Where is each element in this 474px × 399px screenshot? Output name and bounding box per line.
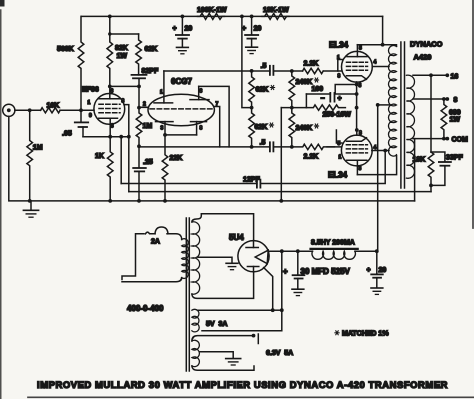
resistor 62K* (upper) <box>249 71 275 108</box>
svg-text:.5: .5 <box>261 63 267 70</box>
wire NFB drop from 16 tap <box>430 75 432 152</box>
wire splitter supply drop <box>242 16 252 107</box>
node rail-cap1 junction <box>181 15 185 19</box>
svg-text:−: − <box>321 96 325 103</box>
svg-text:8: 8 <box>454 97 458 104</box>
node cathode-screen-NFB junction <box>127 135 131 139</box>
wire EL34 bottom g2 to UL tap <box>372 150 389 152</box>
svg-text:1: 1 <box>339 155 342 161</box>
wire cathode tie 6CG7 <box>165 134 197 136</box>
resistor 1M (splitter) <box>136 108 152 147</box>
svg-text:8: 8 <box>122 99 125 105</box>
wire 6CG7 right grid drop <box>214 107 219 147</box>
svg-text:82K: 82K <box>115 45 128 52</box>
capacitor 100 MFD bias <box>306 86 356 108</box>
node lower g2 lineA junction <box>383 149 387 153</box>
node 16-NFB junction <box>429 73 433 77</box>
resistor 62K (EF86) <box>136 34 158 75</box>
resistor 240K* (lower) <box>289 108 319 147</box>
node 240K mid junction <box>290 106 294 110</box>
wire EL34 bottom grid entry <box>327 146 342 148</box>
wire bottom .5 to 2.2K <box>273 146 291 148</box>
wire screen-NFB drop <box>128 137 130 192</box>
resistor 1K <box>95 137 113 201</box>
capacitor 33PF <box>431 152 463 185</box>
wire filament jumper <box>273 309 282 311</box>
svg-text:3: 3 <box>359 83 362 89</box>
svg-text:EL34: EL34 <box>328 171 348 180</box>
wire bias vertical (cathodes) <box>356 85 358 131</box>
svg-text:62K: 62K <box>256 87 269 94</box>
wire 6CG7 left plate line to top .5 <box>164 70 270 72</box>
node rail-splitter-feed junction <box>240 15 244 19</box>
wire 6CG7 grid left entry <box>140 106 148 108</box>
transformer OPT core <box>401 42 405 188</box>
svg-text:62K: 62K <box>145 46 158 53</box>
svg-text:1: 1 <box>88 100 91 106</box>
wire 6.3V top lead with stub <box>192 334 258 344</box>
scan edge left <box>0 10 2 399</box>
wire line A left (cathode to 12PF) <box>121 183 257 185</box>
svg-text:IMPROVED MULLARD 30 WATT AMPLI: IMPROVED MULLARD 30 WATT AMPLIFIER USING… <box>37 379 448 390</box>
capacitor +120 output with ground <box>367 251 387 294</box>
wire input line <box>15 109 41 111</box>
svg-text:20: 20 <box>254 26 262 33</box>
resistor 18K-1W <box>262 7 289 19</box>
svg-text:5U4: 5U4 <box>229 233 244 242</box>
svg-text:2.2K: 2.2K <box>304 61 319 68</box>
capacitor .5 (upper) <box>261 63 274 75</box>
node 240K upper junction <box>290 69 294 73</box>
node 62K mid junction <box>250 106 254 110</box>
resistor 2.2K (upper) <box>303 61 324 74</box>
transformer OPT secondary winding <box>406 75 414 178</box>
ground (main rail) <box>23 201 38 217</box>
svg-text:.5: .5 <box>260 140 266 147</box>
svg-text:680: 680 <box>449 110 461 117</box>
resistor 560K <box>57 16 84 110</box>
node OPT top junction <box>381 43 385 47</box>
svg-text:6.3V 5A: 6.3V 5A <box>266 350 293 357</box>
resistor 10K <box>41 103 60 113</box>
svg-text:8: 8 <box>338 74 341 80</box>
node bias-gnd rail junction <box>279 199 283 203</box>
scan edge bottom <box>28 396 474 398</box>
scan edge right <box>472 0 474 228</box>
svg-text:A420: A420 <box>414 53 432 62</box>
svg-text:62K: 62K <box>255 124 268 131</box>
node B+ pickup junction <box>280 308 284 312</box>
wire B+ to CT <box>377 105 379 251</box>
wire EF86 cathode line <box>83 136 129 138</box>
tube 5U4 rectifier <box>229 233 269 272</box>
node .25-ground junction <box>137 199 141 203</box>
svg-text:5V 3A: 5V 3A <box>206 321 227 328</box>
label DYNACO A420 <box>410 40 443 62</box>
wire 62K branch <box>110 33 139 35</box>
wire B+ pickup drop <box>202 251 282 331</box>
capacitor +120 (right) with ground <box>242 16 261 53</box>
terminal COM <box>445 137 468 144</box>
svg-text:560K: 560K <box>57 46 74 53</box>
capacitor 82PF <box>132 68 159 86</box>
node coupling junction 82PF <box>137 85 141 89</box>
svg-text:3: 3 <box>111 124 114 130</box>
svg-text:2.2K: 2.2K <box>304 154 319 161</box>
wire EL34 top g3 jog <box>338 60 342 72</box>
node B+ filament junction <box>280 249 284 253</box>
resistor 62K* (lower) <box>249 108 274 147</box>
svg-text:3: 3 <box>359 166 362 172</box>
wire AC lead lower / primary bottom <box>122 278 182 282</box>
capacitor .25 <box>133 146 153 201</box>
node bottom .5 junction <box>250 145 254 149</box>
capacitor 30MFD 525V with ground <box>283 251 351 295</box>
svg-text:3: 3 <box>161 126 164 132</box>
node B+ 30MFD junction <box>296 249 300 253</box>
wire B+ top rail <box>82 15 383 17</box>
wire top EL34 cathode jog <box>335 82 356 93</box>
tube EF86 V1 <box>82 86 125 136</box>
wire 10K to grid <box>60 109 94 111</box>
svg-text:EF86: EF86 <box>82 87 99 94</box>
svg-text:COM: COM <box>452 137 469 144</box>
resistor 100K-1W <box>197 7 227 19</box>
svg-text:12PF: 12PF <box>243 177 260 184</box>
svg-text:4: 4 <box>374 60 377 66</box>
terminal 8 <box>445 97 457 104</box>
wire 6.3V bottom lead <box>192 366 254 370</box>
node 1M-.25 junction <box>137 144 141 148</box>
svg-text:8: 8 <box>359 131 362 137</box>
svg-text:20: 20 <box>379 267 387 274</box>
wire EL34 top plate line to OPT top <box>357 45 396 47</box>
choke 8.5HY 200MA <box>311 240 358 260</box>
node cathode-22K junction <box>163 133 167 137</box>
transformer HV secondary winding <box>192 222 200 294</box>
svg-text:240K: 240K <box>296 125 313 132</box>
resistor 250-10W <box>306 105 351 119</box>
node 1M-ground junction <box>28 199 32 203</box>
svg-text:1W: 1W <box>450 117 461 124</box>
wire OPT center tap <box>378 104 389 106</box>
svg-text:30 MFD 525V: 30 MFD 525V <box>301 267 351 276</box>
wire COM ground drop <box>414 139 416 201</box>
wire top .5 to 2.2K <box>273 70 302 72</box>
svg-text:5: 5 <box>338 141 341 147</box>
wire 2.2K to EL34 grid <box>323 70 341 72</box>
svg-text:1W: 1W <box>117 53 128 60</box>
node OPT CT junction <box>376 103 380 107</box>
svg-text:1M: 1M <box>33 145 43 152</box>
input jack J1 <box>3 104 15 116</box>
wire COM tap <box>413 138 447 140</box>
resistor 1M (input) <box>27 110 43 201</box>
svg-text:22K: 22K <box>170 155 183 162</box>
node 22K-ground junction <box>163 199 167 203</box>
svg-text:6: 6 <box>200 89 203 95</box>
node 240K lower junction <box>290 145 294 149</box>
node 1K-ground junction <box>108 199 112 203</box>
resistor 18K NFB <box>413 152 434 185</box>
transformer 5V winding <box>192 309 199 332</box>
wire 5U4 output B+ <box>269 250 312 252</box>
wire EF86 screen tap <box>124 105 129 137</box>
node 680 bottom junction <box>442 137 446 141</box>
svg-text:EL34: EL34 <box>329 41 349 50</box>
transformer 6.3V winding <box>192 340 200 366</box>
svg-text:16: 16 <box>451 74 459 81</box>
wire bottom floating line <box>139 146 270 148</box>
capacitor .05 <box>62 110 88 137</box>
wire 16 ohm tap <box>413 74 447 76</box>
node NFB bottom junction <box>429 184 433 188</box>
svg-text:8.5HY 200MA: 8.5HY 200MA <box>311 240 355 247</box>
node 82K-62K branch <box>108 32 111 35</box>
wire rail drop to OPT top <box>382 16 384 44</box>
node rail-cap2 junction <box>250 15 254 19</box>
capacitor 12PF (series in line A) <box>243 177 260 188</box>
wire HV bottom to 5U4 plate <box>192 272 254 299</box>
svg-text:2A: 2A <box>151 239 160 246</box>
svg-text:240K: 240K <box>296 79 313 86</box>
svg-text:1K: 1K <box>95 153 104 160</box>
svg-text:+: + <box>367 267 371 274</box>
wire 240K mid to bias-gnd <box>281 107 306 109</box>
wire EL34 top g2 to UL tap <box>372 66 389 68</box>
svg-text:100: 100 <box>312 86 324 93</box>
wire line A right (12PF to lower screen) <box>260 151 385 184</box>
svg-text:8: 8 <box>200 126 203 132</box>
wire choke to +120 cap <box>355 250 377 252</box>
wire 5U4 filament lead <box>264 268 273 311</box>
node filament-5V junction <box>271 308 275 312</box>
svg-text:6CG7: 6CG7 <box>171 77 192 86</box>
wire EL34 bottom g3 jog <box>336 130 342 143</box>
node EF86 plate junction <box>108 85 112 89</box>
node cathode-lineA junction <box>119 135 123 139</box>
terminal 16 <box>445 73 458 80</box>
svg-text:1: 1 <box>160 90 163 96</box>
svg-text:82PF: 82PF <box>142 68 159 75</box>
node B+ CT junction <box>375 249 379 253</box>
node rail-82K junction <box>108 15 112 19</box>
node top cathode junction <box>355 83 359 87</box>
svg-text:6: 6 <box>111 89 114 95</box>
svg-text:18K: 18K <box>413 157 426 164</box>
resistor 82K 1W <box>107 16 128 86</box>
svg-text:.05: .05 <box>62 131 72 138</box>
svg-text:100K-1W: 100K-1W <box>197 7 227 14</box>
node top .5 junction <box>250 69 254 73</box>
wire grid wire 6CG7 left <box>139 106 148 108</box>
svg-text:250-10W: 250-10W <box>323 112 352 119</box>
node input-1M junction <box>28 108 32 112</box>
wire 6CG7 right plate drop <box>199 86 229 146</box>
tube EL34 (lower) V4 <box>328 130 377 180</box>
svg-text:+: + <box>283 267 288 276</box>
wire 5V top lead <box>198 309 273 311</box>
wire EL34 bottom plate to OPT <box>357 155 396 175</box>
svg-text:18K-1W: 18K-1W <box>263 7 289 14</box>
node bias cap junction <box>355 92 359 96</box>
capacitor +120 (left) with ground <box>173 16 193 53</box>
wire AC lead upper <box>122 234 144 280</box>
node cathode-1K junction <box>108 135 112 139</box>
wire HV center tap to ground <box>198 257 238 270</box>
node bias 250 junction <box>355 106 359 110</box>
svg-text:MATCHED 1%: MATCHED 1% <box>342 331 389 338</box>
svg-text:10K: 10K <box>47 103 60 110</box>
wire NFB to line B <box>430 185 432 191</box>
node grid junction EF86 <box>79 108 83 112</box>
tube EL34 (upper) V3 <box>329 41 377 90</box>
resistor 22K <box>162 135 182 201</box>
svg-text:+: + <box>173 26 177 33</box>
resistor 2.2K (lower) <box>292 144 335 160</box>
wire HV top to 5U4 plate <box>192 214 254 241</box>
wire lineA drop <box>120 137 122 184</box>
wire 6.3V center tap to ground <box>200 352 241 365</box>
resistor 680 1W <box>441 99 461 139</box>
svg-text:.25: .25 <box>143 159 153 166</box>
wire jack shield to ground rail <box>9 116 415 200</box>
node lower EL34 cathode junction <box>355 128 359 132</box>
wire line B NFB <box>129 191 431 193</box>
wire bias ground drop <box>280 108 282 201</box>
svg-text:33PF: 33PF <box>446 155 463 162</box>
scan corner blot <box>0 0 5 7</box>
tube 6CG7 V2 <box>143 71 219 135</box>
transformer power primary winding <box>182 239 188 279</box>
resistor 240K* (upper) <box>289 71 319 108</box>
svg-text:+: + <box>338 96 342 103</box>
transformer power core <box>186 218 189 371</box>
transformer OPT primary winding <box>388 45 396 156</box>
svg-text:5: 5 <box>359 46 362 52</box>
svg-text:9: 9 <box>89 113 92 119</box>
label MATCHED 1% <box>335 331 389 338</box>
node 6CG7 grid-1M junction <box>137 106 141 110</box>
svg-text:20: 20 <box>185 26 193 33</box>
svg-text:400-0-400: 400-0-400 <box>127 304 164 313</box>
capacitor .5 (lower) <box>260 140 274 152</box>
wire EF86 plate to coupling node <box>110 85 139 87</box>
node 680 top junction <box>442 97 446 101</box>
wire 8 ohm tap <box>413 98 447 100</box>
wire primary top to fuse line <box>167 234 182 240</box>
wire coupling node down to 6CG7 grid <box>138 86 140 107</box>
svg-text:1M: 1M <box>143 123 153 130</box>
fuse 2A <box>146 227 169 246</box>
svg-text:DYNACO: DYNACO <box>410 40 443 49</box>
